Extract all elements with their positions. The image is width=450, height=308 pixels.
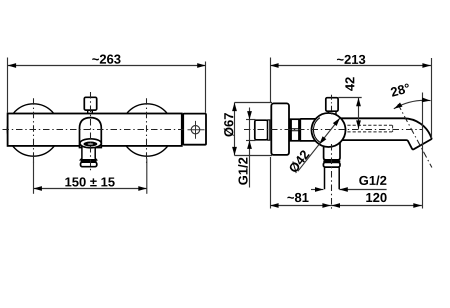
check-valve end cap xyxy=(183,114,206,145)
top port knob xyxy=(326,98,338,112)
dim 120 label xyxy=(366,193,386,202)
escutcheon Ø67 (side) xyxy=(271,103,289,154)
dim G1/2 outlet leader left segment xyxy=(311,189,323,191)
left rosette vertical centerline xyxy=(33,98,35,163)
diverter knob (front) xyxy=(84,97,96,110)
spout vertical centerline xyxy=(90,92,92,171)
dim O67 line xyxy=(234,103,236,156)
vertical reference line / 120 extension xyxy=(422,93,424,209)
dim 42 arrow down xyxy=(356,120,361,129)
aerator cylinder xyxy=(81,146,97,160)
dim G1/2 wall line xyxy=(249,108,251,188)
dim 42 label (rotated) xyxy=(345,77,354,91)
dim O67 arrow down xyxy=(232,147,237,156)
dim ~213 arrow left xyxy=(270,63,279,68)
dim ~213 extension right xyxy=(431,58,433,138)
dim G1/2 outlet leader right segment xyxy=(339,189,386,191)
body circle Ø42 xyxy=(312,113,346,147)
aerator ellipse inner dark ring xyxy=(84,142,98,147)
dim 150 arrow left xyxy=(33,186,42,191)
top port centerline xyxy=(331,95,333,116)
dim 120 arrow left xyxy=(332,203,341,208)
dim 150 label xyxy=(65,177,114,186)
hex nut xyxy=(290,119,301,141)
end cap screw crosshair xyxy=(188,121,205,139)
hex nut thick edges xyxy=(291,119,299,141)
dim O67 arrow up xyxy=(232,103,237,112)
port lower tube xyxy=(325,167,340,189)
top port stem xyxy=(328,111,336,114)
right rosette vertical centerline xyxy=(146,98,148,163)
body neck xyxy=(300,119,316,141)
mixer body xyxy=(8,114,182,146)
aerator gasket band xyxy=(81,160,97,162)
dim G1/2 wall label (rotated) xyxy=(238,158,248,185)
dim ~213 arrow right xyxy=(422,63,431,68)
spout hidden channel dashed xyxy=(347,125,392,132)
body horizontal centerline xyxy=(3,129,184,131)
dim G1/2 outlet arrow right-pointing xyxy=(315,187,324,192)
dim 42 extension line xyxy=(338,97,361,99)
dim G1/2 wall arrow up xyxy=(247,140,252,149)
dim G1/2 outlet arrow left-pointing xyxy=(339,187,348,192)
port ring xyxy=(323,162,340,167)
dim ~263 arrow left xyxy=(8,63,17,68)
hex nut facet lines xyxy=(290,129,301,131)
bottom port centerline / dim junction extension xyxy=(331,144,333,209)
wall nipple G1/2 xyxy=(255,120,268,140)
port gasket band xyxy=(323,160,340,162)
spout xyxy=(341,118,432,149)
diverter knob stem xyxy=(88,110,93,113)
28 deg label xyxy=(390,83,410,97)
dim 150 line xyxy=(33,188,147,190)
dim ~263 extension line right xyxy=(205,62,207,113)
dim ~81 label xyxy=(287,193,308,202)
dim 150 extension line left xyxy=(33,159,35,194)
spout bell (front) xyxy=(80,118,102,148)
dim ~213 extension left xyxy=(270,58,272,103)
dim ~81 arrow left xyxy=(270,203,279,208)
dim ~263 label xyxy=(92,55,120,64)
aerator ellipse outer xyxy=(80,139,101,148)
outlet axis 28 deg xyxy=(398,104,432,167)
end cap screw circle xyxy=(191,126,199,134)
dim G1/2 wall arrow down xyxy=(247,111,252,120)
dim O42 arrow upper xyxy=(333,116,342,126)
dim ~213 label xyxy=(337,55,365,64)
right view horizontal centerline xyxy=(244,129,423,131)
dim O42 line xyxy=(298,118,340,171)
dim G1/2 wall extension bottom xyxy=(246,140,256,142)
dim O67 extension top xyxy=(235,102,273,104)
dim ~213 line xyxy=(270,65,431,67)
nipple flange xyxy=(268,120,270,140)
28 deg arc xyxy=(394,100,431,108)
dim G1/2 outlet label xyxy=(359,175,386,185)
dim O42 label (rotated) xyxy=(288,149,310,174)
wall rosette right circle xyxy=(121,104,173,156)
dim 42 line xyxy=(358,98,360,129)
dim G1/2 wall extension top xyxy=(246,119,256,121)
dim 150 arrow right xyxy=(138,186,147,191)
dim ~81 extension left xyxy=(270,157,272,209)
dim ~263 line xyxy=(8,65,206,67)
dim ~81 arrow right xyxy=(322,203,331,208)
28 deg arc arrow left xyxy=(393,102,403,110)
dim ~263 extension line left xyxy=(7,58,9,113)
dim O67 label (rotated) xyxy=(224,113,234,136)
dim 120 arrow right xyxy=(413,203,422,208)
dim ~263 arrow right xyxy=(197,63,206,68)
dim O42 arrow lower xyxy=(317,136,326,146)
dim ~81 / 120 line xyxy=(270,205,422,207)
bottom port tube xyxy=(324,141,340,160)
aerator ring xyxy=(81,162,97,167)
dim 150 extension line right xyxy=(146,159,148,194)
dim 42 arrow up xyxy=(356,98,361,107)
28 deg arc arrow right xyxy=(422,97,431,103)
dim O67 extension bottom xyxy=(235,155,273,157)
body circle inner arc xyxy=(313,118,319,143)
wall rosette left circle xyxy=(7,104,59,156)
